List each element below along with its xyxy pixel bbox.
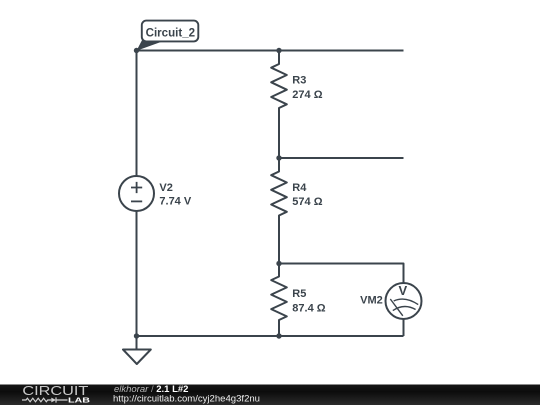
svg-text:http://circuitlab.com/cyj2he4g: http://circuitlab.com/cyj2he4g3f2nu — [113, 394, 260, 405]
junction dot top-left — [134, 48, 139, 53]
node label Circuit_2 callout — [137, 21, 199, 51]
wire top rail — [137, 50, 404, 52]
logo diode — [51, 398, 56, 403]
resistor R5 — [271, 264, 326, 337]
svg-text:Circuit_2: Circuit_2 — [146, 26, 196, 40]
junction dot node2 — [276, 155, 281, 160]
junction dot node3 — [276, 261, 281, 266]
svg-text:LAB: LAB — [68, 396, 91, 405]
wire node2 horizontal — [279, 157, 404, 159]
logo resistor zigzag — [22, 398, 51, 402]
svg-text:7.74 V: 7.74 V — [159, 196, 191, 208]
svg-text:VM2: VM2 — [360, 295, 383, 307]
svg-text:R4: R4 — [292, 182, 307, 194]
svg-text:274 Ω: 274 Ω — [292, 89, 322, 101]
voltmeter VM2 — [360, 283, 421, 319]
wire left vertical lower — [136, 211, 138, 337]
svg-text:V: V — [398, 283, 407, 298]
footer bar — [0, 385, 540, 405]
svg-text:574 Ω: 574 Ω — [292, 196, 322, 208]
ground — [123, 336, 151, 364]
junction dot ground — [134, 333, 139, 338]
voltage source V2 — [119, 176, 192, 211]
svg-text:87.4 Ω: 87.4 Ω — [292, 302, 325, 314]
svg-text:R5: R5 — [292, 288, 306, 300]
wire left vertical upper — [136, 51, 138, 177]
resistor R4 — [271, 158, 323, 264]
wire bottom rail — [137, 335, 404, 337]
svg-text:V2: V2 — [159, 182, 172, 194]
resistor R3 — [271, 51, 323, 159]
junction dot R3 top — [276, 48, 281, 53]
wire node3 horizontal to voltmeter — [279, 264, 404, 284]
junction dot R5 bottom — [276, 333, 281, 338]
svg-text:R3: R3 — [292, 75, 306, 87]
wire voltmeter bottom — [403, 319, 405, 337]
